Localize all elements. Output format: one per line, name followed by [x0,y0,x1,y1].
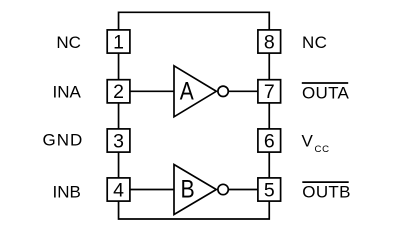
wire pin1-pin2 [118,53,120,80]
svg-text:GND: GND [43,131,84,150]
pin 6 [258,129,281,153]
inversion bubble on B output [218,184,228,194]
label OUTB (pin 5, active low) [302,182,350,202]
inversion bubble on A output [218,86,228,96]
wire inverter A bubble to pin 7 [229,90,258,92]
wire pin4 to inverter B input [130,189,174,191]
svg-text:2: 2 [113,81,124,103]
svg-text:INB: INB [53,183,81,202]
svg-text:1: 1 [113,31,124,53]
svg-text:3: 3 [113,130,124,152]
svg-text:6: 6 [264,130,275,152]
inverter B (gate U1B) [174,165,216,215]
svg-text:INA: INA [53,82,82,101]
pin 8 [258,30,281,54]
svg-text:7: 7 [264,81,275,103]
pin 2 [107,80,130,104]
wire pin7-pin6 [268,103,270,129]
wire pin6-pin5 [268,152,270,178]
svg-text:OUTA: OUTA [302,84,350,103]
inverter A (gate U1A) [174,66,216,117]
svg-text:B: B [181,176,195,204]
pin 7 [258,80,281,104]
svg-text:4: 4 [113,179,124,201]
wire pin2 to inverter A input [130,90,174,92]
wire pin2-pin3 [118,103,120,129]
svg-text:8: 8 [264,31,275,53]
pin 4 [107,178,130,202]
wire bottom bus (pin 4 to pin 5) [119,201,270,219]
wire top bus (pin 1 to pin 8) [119,12,270,30]
svg-text:5: 5 [264,179,275,201]
wire inverter B bubble to pin 5 [229,189,258,191]
pin 3 [107,129,130,153]
pin 1 [107,30,130,54]
label OUTA (pin 7, active low) [302,83,350,103]
svg-text:NC: NC [56,33,81,52]
pin 5 [258,178,281,202]
wire pin8-pin7 [268,53,270,80]
wire pin3-pin4 [118,152,120,178]
svg-text:OUTB: OUTB [302,183,350,202]
svg-text:NC: NC [302,33,327,52]
svg-text:A: A [180,78,194,106]
